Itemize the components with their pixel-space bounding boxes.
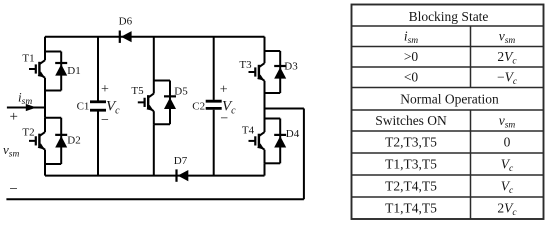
svg-text:Switches ON: Switches ON xyxy=(375,113,447,128)
svg-text:>0: >0 xyxy=(404,49,419,64)
wire T1 collector stub xyxy=(44,52,46,61)
wire T2 loop bottom xyxy=(45,163,61,165)
svg-text:C2: C2 xyxy=(192,100,205,112)
wire T1 loop top xyxy=(45,51,61,53)
wire T5 loop bottom xyxy=(154,123,170,125)
wire T5 loop top xyxy=(154,80,170,82)
wire T3 collector stub xyxy=(264,51,266,63)
table divider lower xyxy=(470,110,472,219)
table row line xyxy=(352,152,544,154)
transistor T3 (IGBT) xyxy=(249,63,265,81)
wire T1 emitter stub xyxy=(44,78,46,91)
wire T4 emitter stub xyxy=(264,150,266,164)
svg-text:Blocking State: Blocking State xyxy=(409,9,489,24)
wire T2 collector stub xyxy=(44,118,46,132)
wire bottom rail xyxy=(45,175,265,177)
svg-text:T1,T4,T5: T1,T4,T5 xyxy=(385,201,437,216)
wire left leg bottom xyxy=(44,164,46,176)
table row line xyxy=(352,66,544,68)
diode D5 (points up) xyxy=(164,96,176,109)
diode D6 (points left) xyxy=(120,31,132,43)
svg-text:Normal Operation: Normal Operation xyxy=(400,91,499,106)
wire T2 loop top xyxy=(45,117,61,119)
table row line xyxy=(352,130,544,132)
wire C1 bottom xyxy=(97,112,99,176)
diode D1 (points up) xyxy=(55,63,67,76)
diode D2 (points up) xyxy=(55,135,67,148)
svg-text:T2,T3,T5: T2,T3,T5 xyxy=(385,135,437,150)
svg-text:+: + xyxy=(9,109,17,125)
transistor T4 (IGBT) xyxy=(249,132,265,150)
transistor T5 (IGBT) xyxy=(138,94,154,112)
svg-text:D1: D1 xyxy=(67,65,80,77)
wire D2 branch xyxy=(60,118,62,164)
table row line xyxy=(352,174,544,176)
wire T1 loop bottom xyxy=(45,90,61,92)
wire left leg middle xyxy=(44,91,46,118)
capacitor C2 xyxy=(206,101,222,108)
svg-text:+: + xyxy=(220,82,228,97)
wire D1 branch xyxy=(60,52,62,91)
svg-text:D4: D4 xyxy=(286,128,300,140)
svg-text:T4: T4 xyxy=(242,125,255,137)
svg-text:−: − xyxy=(220,111,228,126)
wire C2 bottom xyxy=(213,110,215,176)
wire T3 loop bottom xyxy=(265,92,281,94)
wire D3 branch xyxy=(279,51,281,93)
wire left leg top xyxy=(44,37,46,52)
wire T3 emitter stub xyxy=(264,81,266,93)
wire T4 loop top xyxy=(265,118,281,120)
wire input + xyxy=(7,107,45,109)
table divider upper xyxy=(470,26,472,88)
svg-text:−: − xyxy=(9,182,17,198)
wire C2 top xyxy=(213,37,215,100)
wire right leg middle xyxy=(264,93,266,119)
svg-text:+: + xyxy=(101,82,109,97)
svg-text:T1: T1 xyxy=(22,53,34,65)
table outer border xyxy=(352,5,544,220)
wire T3 loop top xyxy=(265,50,281,52)
capacitor C1 xyxy=(90,102,106,110)
table row line xyxy=(352,87,544,89)
svg-text:−: − xyxy=(101,113,109,128)
svg-text:0: 0 xyxy=(504,135,511,150)
wire output bottom - xyxy=(6,198,304,200)
svg-text:C1: C1 xyxy=(77,101,90,113)
svg-text:D3: D3 xyxy=(284,61,298,73)
table row line xyxy=(352,25,544,27)
wire C1 top xyxy=(97,37,99,101)
wire D5 branch xyxy=(169,81,171,125)
wire T5 emitter stub xyxy=(153,111,155,124)
wire T2 emitter stub xyxy=(44,150,46,164)
svg-text:D2: D2 xyxy=(67,135,80,147)
transistor T2 (IGBT) xyxy=(29,132,45,150)
wire T4 loop bottom xyxy=(265,162,281,164)
wire T4 collector stub xyxy=(264,119,266,133)
table row line xyxy=(352,109,544,111)
wire output right vertical xyxy=(303,109,305,200)
diode D7 (points left) xyxy=(177,169,189,181)
wire right midpoint xyxy=(265,108,304,110)
wire mid leg top xyxy=(153,37,155,81)
svg-text:T2: T2 xyxy=(22,127,34,139)
wire T5 collector stub xyxy=(153,81,155,94)
svg-text:D5: D5 xyxy=(174,86,188,98)
svg-text:T2,T4,T5: T2,T4,T5 xyxy=(385,179,437,194)
wire D4 branch xyxy=(279,119,281,164)
table row line xyxy=(352,196,544,198)
wire top rail xyxy=(45,36,265,38)
wire right leg bottom xyxy=(264,163,266,175)
transistor T1 (IGBT) xyxy=(29,60,45,78)
svg-text:T1,T3,T5: T1,T3,T5 xyxy=(385,157,437,172)
wire right leg top xyxy=(264,37,266,51)
svg-text:D6: D6 xyxy=(119,16,133,28)
svg-text:T5: T5 xyxy=(131,85,144,97)
svg-text:<0: <0 xyxy=(404,70,419,85)
diode D3 (points up) xyxy=(274,66,286,79)
svg-text:D7: D7 xyxy=(174,155,188,167)
svg-text:T3: T3 xyxy=(239,59,252,71)
arrowhead i_sm xyxy=(26,104,37,111)
wire mid leg bottom xyxy=(153,124,155,175)
table row line xyxy=(352,46,544,48)
diode D4 (points up) xyxy=(274,135,286,148)
